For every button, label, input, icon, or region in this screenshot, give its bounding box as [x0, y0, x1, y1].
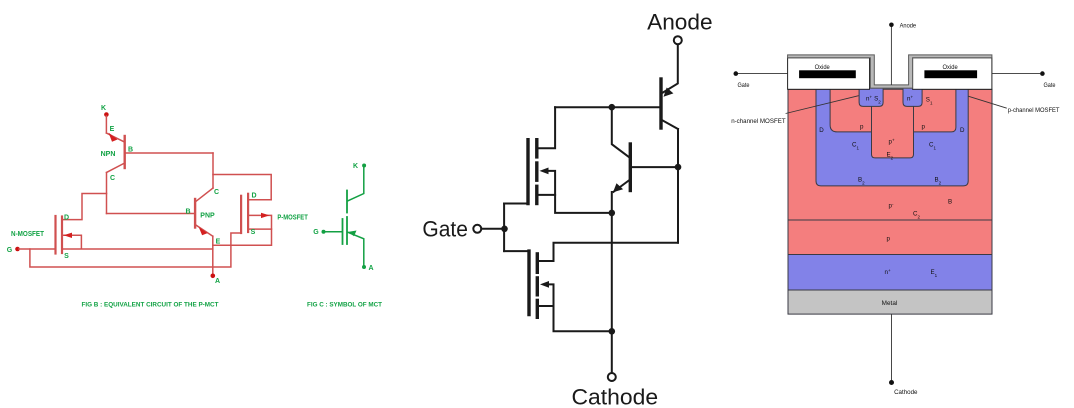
wire M2 source	[539, 306, 612, 331]
gate electrode left (black bar)	[799, 70, 856, 78]
junction dot gate node	[501, 226, 508, 233]
svg-text:Gate: Gate	[422, 217, 468, 242]
svg-text:Anode: Anode	[900, 23, 917, 30]
svg-text:p: p	[860, 124, 864, 131]
wire emitter to A (symbol)	[348, 232, 364, 265]
svg-text:Oxide: Oxide	[815, 64, 831, 71]
transistor PNP emitter arrow	[199, 227, 208, 235]
wire anode line (cross-section)	[890, 27, 892, 85]
region p wells (red rounded)	[830, 89, 956, 132]
transistor NPN emitter arrow	[109, 133, 118, 142]
wire N-MOSFET body stub	[63, 235, 81, 248]
wire G to gate	[19, 248, 55, 250]
svg-text:Gate: Gate	[1044, 82, 1056, 89]
terminal Anode circle	[674, 36, 682, 44]
wire gate lead	[481, 228, 504, 230]
region n+ S1 box (blue rounded)	[903, 88, 922, 106]
svg-text:FIG B : EQUIVALENT CIRCUIT OF: FIG B : EQUIVALENT CIRCUIT OF THE P-MCT	[82, 302, 219, 309]
transistor NPN bar	[123, 136, 125, 168]
wire cathode line (cross-section)	[891, 314, 893, 380]
svg-text:Anode: Anode	[647, 10, 713, 35]
arrow M2	[540, 281, 549, 288]
wire PNP base (middle)	[555, 106, 659, 108]
node K terminal dot (symbol)	[362, 164, 366, 168]
wire N-MOSFET source	[63, 248, 213, 250]
svg-text:D: D	[251, 193, 256, 200]
svg-text:K: K	[101, 105, 106, 112]
svg-text:PNP: PNP	[200, 213, 215, 220]
bar gate left (symbol)	[342, 219, 344, 244]
svg-text:Oxide: Oxide	[943, 64, 959, 71]
region body p- drift (red)	[788, 89, 992, 254]
wire P-MOSFET drain stub	[249, 199, 271, 201]
junction dot base node	[609, 104, 616, 111]
region p+ column (red rounded)	[872, 89, 914, 158]
node Anode dot (cross-section)	[889, 23, 894, 28]
svg-text:B: B	[948, 199, 952, 206]
arrow NPN emitter (middle)	[613, 183, 623, 192]
oxide box right (white)	[913, 58, 992, 90]
oxide box left (white)	[788, 58, 870, 90]
wire gate right line	[992, 73, 1040, 75]
wire M1 source	[539, 195, 612, 213]
svg-text:p: p	[922, 124, 926, 131]
node Gate left dot (cross-section)	[734, 71, 739, 76]
labels left circuit	[7, 105, 382, 309]
svg-text:P-MOSFET: P-MOSFET	[277, 215, 308, 222]
svg-text:Metal: Metal	[882, 300, 898, 307]
wire NPN collector up (middle)	[612, 107, 629, 157]
svg-text:NPN: NPN	[101, 151, 116, 158]
annotation line p-channel MOSFET	[968, 96, 1007, 108]
wire anode vertical	[212, 236, 214, 274]
region Metal (gray)	[788, 290, 992, 314]
wire NPN base corner down	[212, 153, 214, 188]
svg-text:FIG C : SYMBOL OF MCT: FIG C : SYMBOL OF MCT	[307, 302, 382, 309]
svg-text:Gate: Gate	[738, 82, 750, 89]
mosfet M1 channel segment bottom	[535, 186, 538, 203]
svg-text:D: D	[64, 215, 69, 222]
svg-text:Cathode: Cathode	[894, 389, 918, 396]
junction dot collector node	[675, 164, 682, 171]
mosfet M1 channel segment top	[535, 140, 538, 157]
node K terminal dot	[104, 112, 109, 117]
svg-text:G: G	[313, 229, 319, 236]
node Gate right dot (cross-section)	[1040, 71, 1045, 76]
svg-text:N-MOSFET: N-MOSFET	[11, 231, 45, 238]
svg-text:p-channel MOSFET: p-channel MOSFET	[1008, 107, 1060, 114]
svg-text:D: D	[960, 127, 965, 134]
svg-text:B: B	[185, 209, 190, 216]
region B2 n-well (blue rounded)	[816, 89, 968, 186]
wire anode lead	[663, 45, 678, 93]
arrow N-MOSFET	[64, 233, 73, 238]
transistor PNP collector wire (middle)	[663, 121, 678, 130]
wire NPN base to right	[126, 152, 213, 154]
gray cap strip	[788, 55, 992, 88]
svg-text:E: E	[216, 239, 221, 246]
region E1 n+ layer (blue)	[788, 255, 992, 291]
wire K lead (symbol)	[348, 167, 364, 202]
wire cathode vertical	[611, 192, 613, 373]
svg-text:G: G	[7, 247, 13, 254]
wire NPN base (middle)	[632, 166, 678, 168]
wire collector down	[106, 173, 108, 214]
mosfet M2 channel segment top	[536, 254, 539, 272]
boundary line C2	[788, 219, 992, 221]
wire P-MOSFET body stub	[249, 215, 271, 229]
terminal Gate circle	[473, 225, 481, 233]
arrow (symbol)	[348, 231, 356, 237]
mosfet M1 channel segment middle	[535, 163, 538, 180]
mosfet P-MOSFET channel bar	[247, 194, 249, 232]
svg-text:C: C	[214, 189, 219, 196]
wire M1 drain	[539, 107, 556, 148]
transistor PNP bar	[194, 199, 196, 228]
junction dot cathode node	[609, 328, 616, 335]
mosfet P-MOSFET gate bar	[240, 196, 242, 233]
wire gate bus	[30, 233, 240, 267]
node G terminal dot	[15, 247, 20, 252]
mosfet N-MOSFET channel bar	[61, 217, 63, 254]
wire K lead	[105, 116, 107, 133]
svg-text:A: A	[368, 265, 373, 272]
svg-text:E: E	[110, 126, 115, 133]
wire to P-MOSFET drain	[213, 175, 271, 200]
svg-text:n-channel MOSFET: n-channel MOSFET	[731, 118, 786, 125]
svg-text:p: p	[887, 236, 891, 243]
arrow PNP emitter (middle)	[664, 88, 674, 97]
node A terminal dot (symbol)	[362, 265, 366, 269]
transistor NPN emitter wire (middle)	[614, 181, 629, 192]
mosfet M2 channel segment middle	[536, 278, 539, 295]
wire M2 drain	[539, 243, 678, 261]
wire PNP base	[107, 213, 195, 215]
region n+ S2 box (blue rounded)	[859, 88, 883, 106]
mosfet M2 gate bar	[527, 251, 530, 314]
svg-text:D: D	[819, 127, 824, 134]
wire M1 body stub	[546, 171, 555, 195]
wire gate to lower FET	[504, 250, 527, 252]
terminal Cathode circle	[608, 373, 616, 381]
wire branch to N-MOSFET drain	[63, 194, 107, 220]
transistor NPN collector wire	[107, 163, 125, 173]
mosfet M1 gate bar	[526, 140, 529, 204]
svg-text:Cathode: Cathode	[572, 384, 659, 408]
arrow M1	[540, 168, 549, 175]
transistor Q1 PNP bar (middle)	[659, 79, 662, 128]
transistor Q2 NPN bar (middle)	[629, 144, 632, 191]
wire M2 body stub	[547, 284, 554, 306]
transistor PNP collector wire	[196, 188, 213, 202]
svg-text:C: C	[110, 175, 115, 182]
transistor PNP emitter wire	[195, 225, 213, 237]
svg-text:A: A	[215, 278, 220, 285]
annotation line n-channel MOSFET	[786, 96, 859, 114]
svg-text:K: K	[353, 163, 358, 170]
bar channel right (symbol)	[346, 217, 348, 244]
svg-text:S: S	[64, 253, 69, 260]
transistor NPN emitter wire	[106, 133, 124, 142]
junction dot FET source node	[609, 210, 616, 217]
mosfet N-MOSFET gate bar	[54, 216, 56, 254]
svg-text:B: B	[128, 147, 133, 154]
gate electrode right (black bar)	[924, 70, 977, 78]
wire gate left line	[738, 73, 788, 75]
wire P-MOSFET source to A node	[213, 229, 272, 245]
bar upper (symbol)	[346, 191, 348, 213]
arrow P-MOSFET	[261, 213, 270, 218]
node G terminal dot (symbol)	[322, 230, 326, 234]
node A terminal dot	[211, 274, 216, 279]
wire gate to upper FET	[504, 203, 526, 205]
wire G lead (symbol)	[325, 231, 342, 233]
wire PNP collector down	[677, 129, 679, 243]
mosfet M2 channel segment bottom	[536, 300, 539, 317]
svg-text:S: S	[251, 229, 256, 236]
wire gate vertical	[503, 204, 505, 252]
node Cathode dot (cross-section)	[889, 380, 894, 385]
